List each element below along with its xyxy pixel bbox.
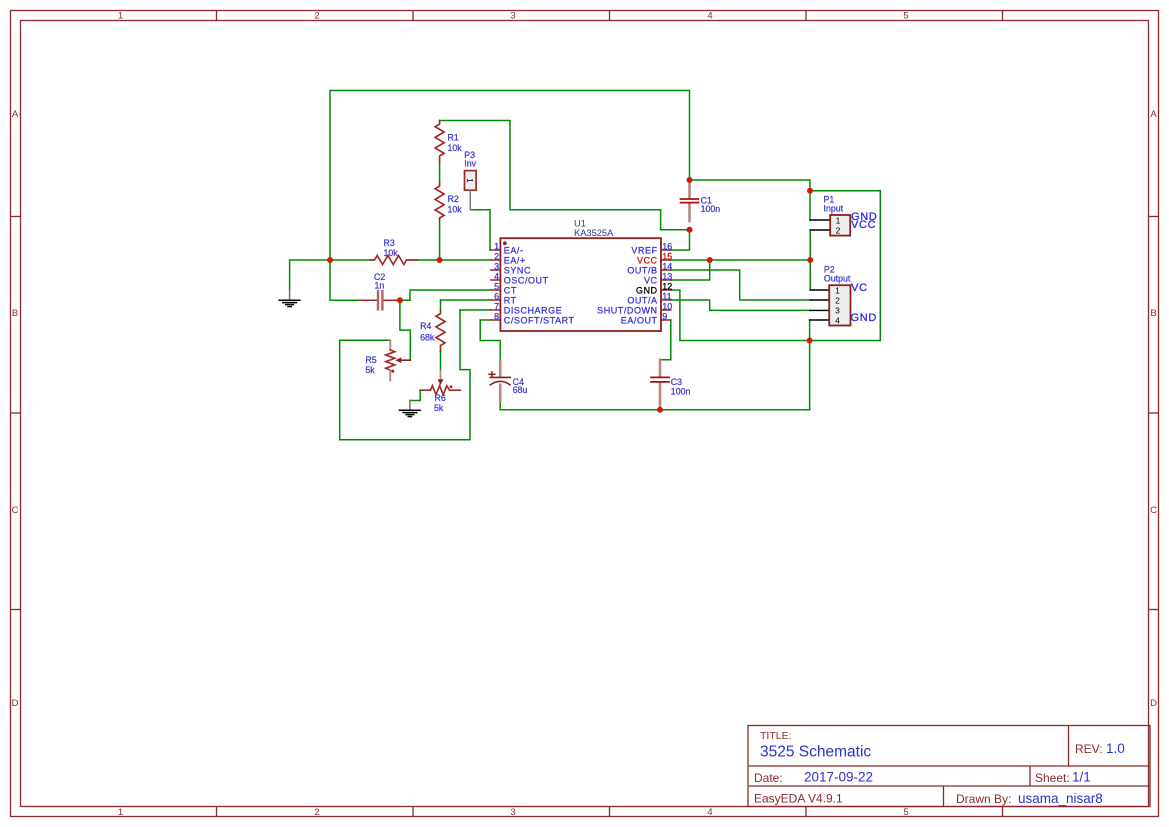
resistor R1 [435,121,444,162]
svg-text:VCC: VCC [851,219,876,231]
junction at R3 left / ground tap [327,257,333,263]
svg-text:VREF: VREF [631,246,657,256]
wire pin 9 to C3 [660,320,671,360]
svg-text:OSC/OUT: OSC/OUT [504,276,549,286]
svg-text:C: C [1150,505,1157,516]
wire R3 left to ground tap [290,260,370,290]
wire GND rail riser to pin12 line [809,341,811,410]
title block [748,726,1150,807]
connector P3 [465,171,477,210]
svg-text:C/SOFT/START: C/SOFT/START [504,316,575,326]
svg-text:16: 16 [662,242,672,252]
svg-text:CT: CT [504,286,517,296]
svg-text:1: 1 [835,285,840,295]
svg-text:U1: U1 [574,218,586,228]
svg-text:C: C [12,505,19,516]
IC U1 KA3525A body [500,238,661,331]
U1 left pin numbers [494,242,499,322]
svg-text:Inv: Inv [464,158,476,168]
junction VCC line / pin 13 [707,257,713,263]
svg-text:D: D [12,698,19,709]
capacitor C3 [651,360,669,407]
svg-text:RT: RT [504,296,517,306]
svg-text:EA/+: EA/+ [504,256,526,266]
svg-text:SHUT/DOWN: SHUT/DOWN [597,306,657,316]
svg-text:100n: 100n [701,204,721,214]
svg-text:7: 7 [494,302,499,312]
U1 reference labels [574,218,614,238]
wire C2 node to R5 wiper [400,300,410,360]
svg-text:D: D [1150,698,1157,709]
svg-text:C3: C3 [671,377,682,387]
value label C4 68u [513,377,528,395]
svg-text:GND: GND [636,286,658,296]
U1 right pin names [597,246,657,326]
wire pin 7 to R5 top loop [340,310,491,440]
svg-text:R4: R4 [420,321,431,331]
svg-text:1/1: 1/1 [1072,770,1091,785]
capacitor C4 polarized [489,361,510,401]
CIRCUIT [279,91,880,440]
junction at R2 bottom / R3 right [437,257,443,263]
svg-text:VCC: VCC [637,256,658,266]
svg-text:REV:: REV: [1075,742,1103,756]
capacitor C1 [681,181,699,221]
wire P3 to pin 1 [470,210,491,250]
svg-text:OUT/B: OUT/B [627,266,657,276]
U1 left pin names [504,246,575,326]
svg-text:9: 9 [662,312,667,322]
svg-text:4: 4 [835,315,840,325]
svg-text:A: A [1150,109,1157,120]
svg-text:EasyEDA V4.9.1: EasyEDA V4.9.1 [754,792,843,806]
wire P2 pin 4 to GND [809,320,811,341]
wire C2 left [330,299,361,301]
value label R2 10k [448,194,463,215]
value label R5 5k [365,355,376,375]
svg-text:10k: 10k [448,205,463,215]
wire C2 right to pin 5 [400,290,491,300]
svg-text:R2: R2 [448,194,459,204]
wire pin 12 GND line [671,290,881,341]
svg-text:Input: Input [824,203,844,213]
svg-text:B: B [12,308,18,319]
svg-text:Output: Output [824,273,851,283]
potentiometer R5 [386,341,411,381]
junction at C1 bottom / VREF [687,227,693,233]
value label C2 1n [374,272,385,290]
potentiometer R6 [420,371,460,395]
capacitor C2 [361,291,400,309]
junction at C1 top [687,177,693,183]
svg-text:4: 4 [494,272,499,282]
svg-text:68u: 68u [513,385,528,395]
svg-text:11: 11 [662,292,671,302]
svg-text:Drawn By:: Drawn By: [956,792,1011,806]
svg-text:2: 2 [835,295,840,305]
wire P1 pin 2 to VCC to P2 pin 1 [809,230,811,290]
svg-text:R3: R3 [384,238,395,248]
svg-text:5: 5 [903,11,908,22]
wire VCC pin 15 line [671,259,810,261]
svg-text:DISCHARGE: DISCHARGE [504,306,562,316]
wire pin 13 to VCC [671,260,710,280]
svg-text:15: 15 [662,252,672,262]
svg-text:5: 5 [494,282,499,292]
label P3 Inv [464,150,476,168]
svg-text:3: 3 [510,11,515,22]
svg-text:3: 3 [510,807,515,818]
value label C1 100n [701,195,721,214]
svg-text:12: 12 [662,282,672,292]
svg-text:KA3525A: KA3525A [574,228,614,238]
svg-text:13: 13 [662,272,672,282]
U1 right pin stubs [661,250,671,320]
svg-text:R6: R6 [435,393,446,403]
svg-text:Sheet:: Sheet: [1035,771,1070,785]
svg-text:2: 2 [314,807,319,818]
U1 right pin numbers [662,242,672,322]
svg-text:Date:: Date: [754,771,783,785]
wire pin 11 to P2 pin 3 [671,300,810,310]
svg-text:1: 1 [836,215,841,225]
svg-text:1: 1 [494,242,499,252]
label P2 Output [824,264,851,283]
resistor R4 [436,311,445,351]
svg-text:2: 2 [314,11,319,22]
wire C1 bottom to pin 16 [671,230,690,250]
svg-text:1: 1 [118,807,123,818]
value label R6 5k [434,393,446,413]
svg-text:6: 6 [494,292,499,302]
svg-text:3: 3 [494,262,499,272]
svg-text:GND: GND [851,312,878,324]
wire GND top rail [330,91,690,301]
svg-text:5k: 5k [365,365,375,375]
svg-text:B: B [1150,308,1156,319]
value label R1 10k [448,133,463,154]
svg-text:2: 2 [494,252,499,262]
svg-text:1: 1 [465,178,474,183]
svg-text:VC: VC [851,282,868,294]
wire R3 right to R2 bottom and pin 2 [417,220,491,260]
junction GND line / P2 pin 4 [807,338,813,344]
svg-text:EA/OUT: EA/OUT [621,316,658,326]
junction P1 pin 1 riser / right rail [807,188,813,194]
svg-text:R5: R5 [365,355,376,365]
junction at C2 right / pin 5 [397,297,403,303]
svg-text:OUT/A: OUT/A [627,296,657,306]
wire R4 bottom to R6 wiper [440,351,442,370]
value label R4 68k [420,321,435,343]
svg-text:A: A [12,109,19,120]
wire C3 bottom tail [659,406,661,410]
svg-text:68k: 68k [420,332,435,342]
svg-text:TITLE:: TITLE: [760,730,792,742]
svg-text:SYNC: SYNC [504,266,531,276]
svg-text:100n: 100n [671,387,691,397]
svg-text:10k: 10k [384,248,399,258]
wire C1 top to P1 pin 1 [690,180,811,220]
svg-text:10: 10 [662,302,672,312]
svg-text:VC: VC [644,276,658,286]
svg-text:usama_nisar8: usama_nisar8 [1018,791,1103,806]
value label C3 100n [671,377,691,397]
connector P2 [810,285,851,325]
svg-text:3: 3 [835,305,840,315]
junction C3 bottom / GND rail [657,407,663,413]
svg-text:R1: R1 [448,133,459,143]
connector P1 [810,215,850,236]
ground symbol left [279,291,300,307]
svg-text:4: 4 [707,807,712,818]
svg-text:5: 5 [903,807,908,818]
svg-text:EA/-: EA/- [504,246,524,256]
wire pin 6 to R4 top [441,300,491,311]
wire right GND rail [810,191,880,341]
svg-text:1n: 1n [375,280,385,290]
svg-text:3525 Schematic: 3525 Schematic [760,744,871,761]
svg-text:2017-09-22: 2017-09-22 [804,770,873,785]
value label R3 10k [384,238,399,258]
wire R1 to R2 link [439,162,441,182]
resistor R3 [370,256,417,265]
resistor R2 [435,182,444,220]
svg-text:4: 4 [707,11,712,22]
svg-text:5k: 5k [434,403,444,413]
wire pin 8 to C4 [480,320,500,361]
wire C4 bottom to GND rail [500,401,809,410]
svg-text:14: 14 [662,262,672,272]
U1 left pin stubs [491,250,501,320]
svg-text:2: 2 [836,225,841,235]
svg-text:1.0: 1.0 [1106,741,1125,756]
svg-text:1: 1 [118,11,123,22]
wire pin 14 to P2 pin 2 [671,270,810,300]
svg-text:10k: 10k [448,143,463,153]
junction VCC line / P1 pin 2 riser [807,257,813,263]
label P1 Input [824,194,844,213]
ground symbol at R6 [400,390,421,416]
wire VREF net R1 top to C1 bottom [440,121,690,230]
title block text [754,730,1125,806]
svg-text:8: 8 [494,312,499,322]
